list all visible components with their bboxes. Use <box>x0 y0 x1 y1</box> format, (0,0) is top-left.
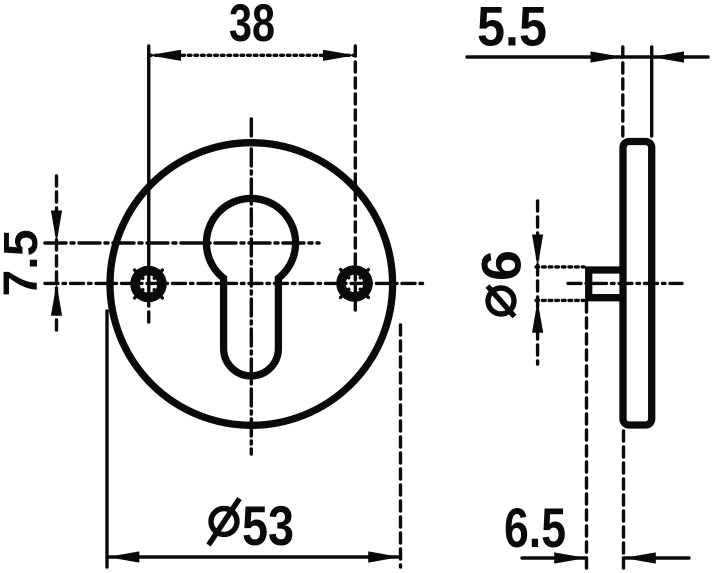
dimension 6.5: right line segment <box>624 556 690 559</box>
dimension 5.5: left arrowhead <box>591 51 623 62</box>
dimension d53: line <box>107 555 401 558</box>
svg-text:7.5: 7.5 <box>0 230 48 297</box>
dimension 38: extension line right (dashed, through right hole) <box>354 46 357 310</box>
dimension 38: left arrowhead <box>149 50 181 61</box>
horizontal centerline of front view <box>45 282 428 285</box>
dimension 6.5: right arrowhead <box>624 552 656 563</box>
dimension 38: extension line left (through left hole) <box>147 46 150 294</box>
dimension d53: right arrowhead <box>368 551 400 562</box>
dimension 7.5: line (vertical dashed) <box>55 176 58 334</box>
dimension d53: extension right (dashed) <box>399 325 402 567</box>
diameter symbol of d6 <box>488 286 515 317</box>
dimension 7.5: top arrowhead <box>51 211 62 243</box>
dimension 7.5: bottom arrowhead <box>51 283 62 315</box>
dimension 5.5: line <box>467 55 708 58</box>
screw hole left <box>135 270 163 298</box>
dimension d6: bottom extension line (dotted) <box>536 299 584 302</box>
dimension 38: line <box>149 54 356 57</box>
dimension 6.5: left extension line (dashed) <box>585 302 588 568</box>
centerline through cylinder hole <box>45 241 319 244</box>
dimension 5.5: right arrowhead <box>652 51 684 62</box>
svg-text:6: 6 <box>470 250 533 281</box>
dimension d6: top extension line (dotted) <box>536 265 584 268</box>
screw hole left: thread tick marks <box>135 270 163 298</box>
dimension 6.5: left arrowhead <box>554 552 586 563</box>
side view boss (guide sleeve) <box>589 270 623 298</box>
euro profile cylinder cutout (keyhole) <box>206 198 295 375</box>
dimension 6.5: right extension line (dashed) <box>622 431 625 568</box>
dimension 38: extension line left, dashed tail <box>147 296 150 324</box>
side view centerline <box>568 282 682 285</box>
side view plate <box>623 142 652 426</box>
dimension 5.5: extension right (solid) <box>650 47 653 136</box>
dimension text d53 <box>209 494 295 557</box>
dimension d6: bottom arrowhead <box>532 300 543 332</box>
dimension 6.5: left line segment <box>522 556 587 559</box>
screw hole right: thread tick marks <box>341 270 369 298</box>
dimension text d6 (rotated) <box>470 250 533 317</box>
svg-text:6.5: 6.5 <box>504 496 566 559</box>
dimension d53: left arrowhead <box>107 551 139 562</box>
svg-text:38: 38 <box>229 0 275 53</box>
diameter symbol of d53 <box>209 499 240 546</box>
svg-text:5.5: 5.5 <box>477 0 547 58</box>
dimension d6: top arrowhead <box>532 235 543 267</box>
screw hole right <box>341 270 369 298</box>
dimension d53: extension left (solid) <box>105 311 108 567</box>
dimension 38: right arrowhead <box>323 50 355 61</box>
vertical centerline of front view <box>250 119 253 454</box>
dimension d6: line (vertical dashed) <box>536 201 539 364</box>
svg-text:53: 53 <box>242 494 294 557</box>
escutcheon plate outline (front view circle d53) <box>110 143 393 426</box>
dimension 5.5: extension left (dashed) <box>621 47 624 136</box>
